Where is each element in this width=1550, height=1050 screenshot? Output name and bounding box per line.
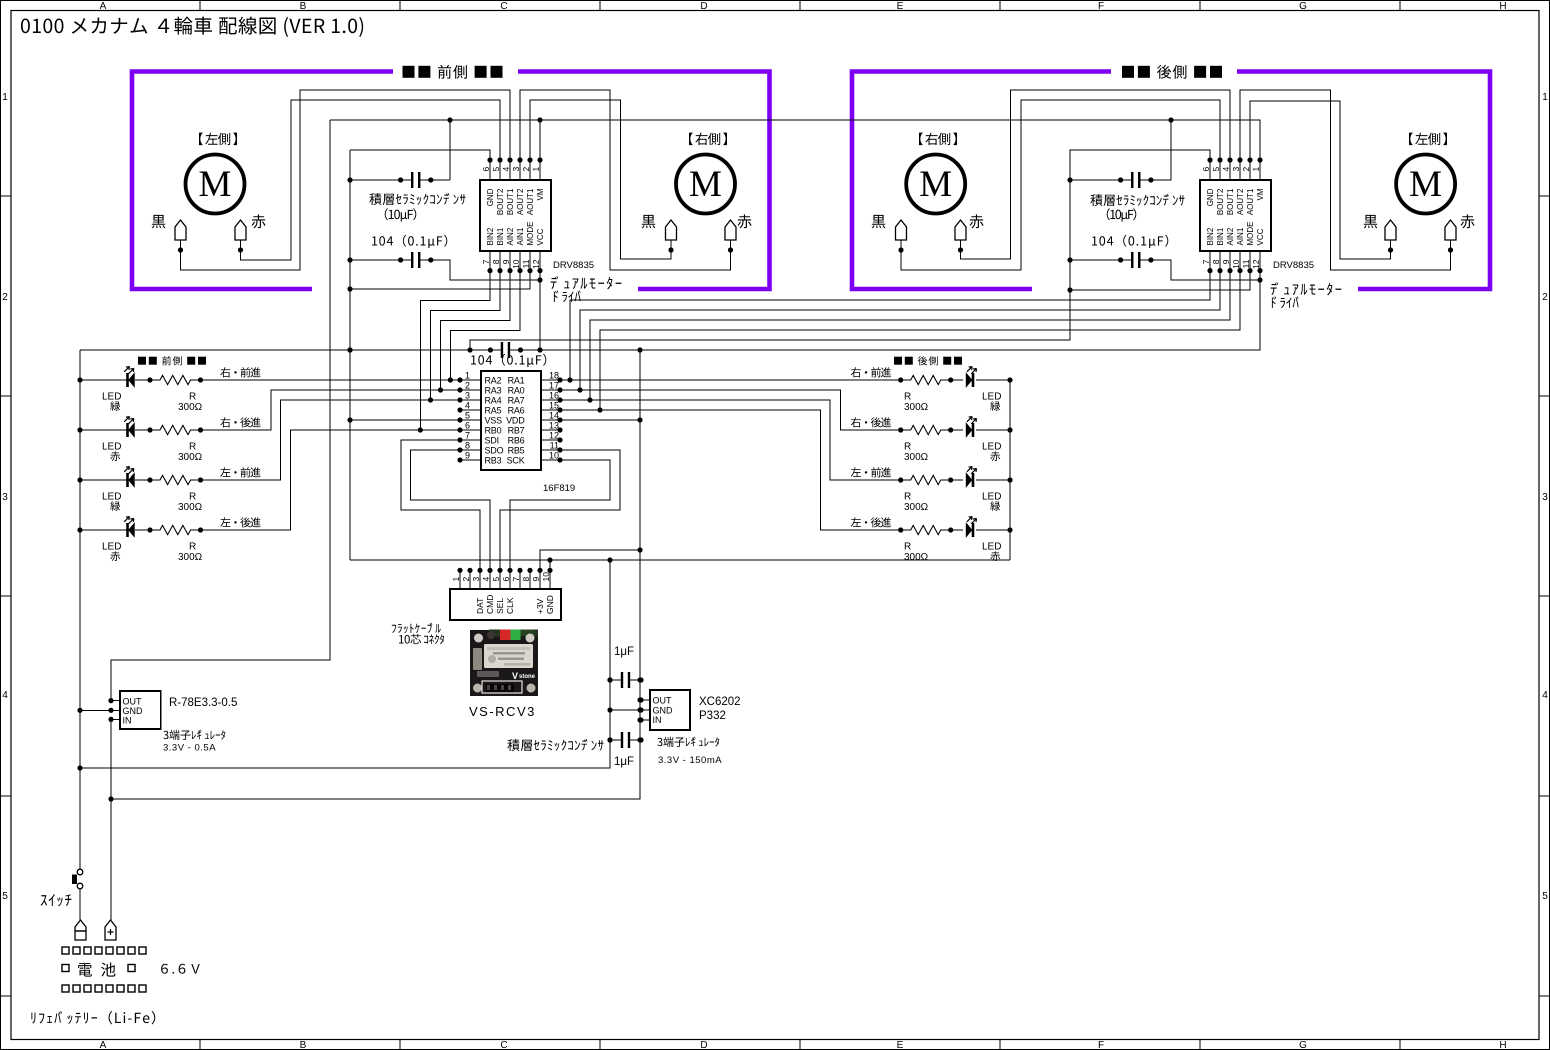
svg-text:RA7: RA7 [508, 396, 525, 406]
svg-text:R: R [189, 392, 196, 403]
svg-text:DAT: DAT [475, 598, 485, 614]
rear cap text1 [1090, 194, 1184, 206]
svg-text:M: M [1409, 164, 1442, 205]
svg-text:R: R [904, 442, 911, 453]
wire rear BIN2 to RA1 [570, 271, 1210, 380]
LED D5 rear 緑 [972, 373, 975, 387]
resistor R7 300ohm rear [901, 475, 951, 484]
junction rear-left red [1448, 247, 1453, 252]
svg-text:LED: LED [102, 392, 121, 403]
front-left motor label [199, 133, 237, 146]
svg-text:R: R [904, 392, 911, 403]
front-right red lead label [737, 214, 751, 228]
capacitor C2 0.1uF front [401, 259, 431, 261]
LED D2 front 赤 [126, 423, 129, 437]
D2 color label [110, 451, 120, 461]
svg-text:MODE: MODE [1246, 222, 1255, 246]
net label 左・前進 front [220, 467, 260, 477]
resistor R2 300ohm front [150, 425, 201, 434]
svg-text:3: 3 [1231, 167, 1241, 172]
junction 3.3V vertical [637, 347, 642, 352]
wire VDD to 3.3V [560, 419, 640, 421]
svg-text:BOUT2: BOUT2 [1216, 188, 1225, 215]
CN1 desc line1 [392, 623, 441, 633]
LED D7 rear 緑 [972, 473, 975, 487]
svg-text:LED: LED [982, 542, 1001, 553]
svg-text:R: R [189, 492, 196, 503]
svg-text:+3V: +3V [535, 598, 545, 614]
wire GND segment to C5 [80, 349, 490, 351]
LED D8 rear 赤 [972, 523, 975, 537]
wire SDO to CMD [411, 450, 490, 570]
rear cap text2 [1107, 208, 1137, 221]
svg-text:3.3V - 0.5A: 3.3V - 0.5A [163, 743, 216, 754]
U3 left pin stubs [460, 379, 481, 381]
wire RA1 to rear right-fwd [560, 379, 901, 381]
wire C3 to VM bus [1151, 120, 1171, 180]
svg-text:AOUT1: AOUT1 [1246, 188, 1255, 215]
svg-text:1μF: 1μF [614, 646, 634, 658]
rear cap text3 [1092, 235, 1168, 248]
junction BIN2-RB0 [418, 427, 423, 432]
connector CN1 flat cable [450, 589, 561, 620]
wire rear-right black to BOUT2 [901, 100, 1220, 270]
front cap text3 [372, 235, 447, 248]
CN1 desc line2 [399, 634, 444, 644]
LED D4 front 赤 [126, 523, 129, 537]
wire VM bus 6.6V [330, 120, 1260, 160]
junctions on left GND rail [77, 377, 82, 382]
svg-text:VDD: VDD [506, 416, 525, 426]
svg-text:F: F [1098, 1, 1104, 12]
resistor R3 300ohm front [150, 475, 201, 484]
svg-text:2: 2 [465, 381, 470, 391]
svg-text:SDI: SDI [485, 436, 499, 446]
capacitor C4 0.1uF rear [1121, 259, 1151, 261]
wire front-left red to BOUT2 [241, 100, 501, 260]
capacitor C3 10uF rear [1121, 179, 1151, 181]
svg-text:AIN1: AIN1 [1236, 227, 1245, 245]
rear-left black lead label [1364, 215, 1378, 228]
wire net left-rev to RB0 [201, 430, 461, 530]
rear block label [1122, 65, 1222, 79]
regulator U4 R-78E3.3-0.5 [120, 691, 161, 729]
junction rear AIN2-RA7 [587, 397, 592, 402]
svg-text:8: 8 [465, 441, 470, 451]
junctions on front GND bus [347, 177, 352, 182]
svg-text:VM: VM [1256, 188, 1265, 200]
wire battery- to switch [79, 768, 81, 869]
svg-text:V: V [512, 671, 518, 681]
D8 color label [990, 551, 1000, 561]
svg-text:VSS: VSS [485, 416, 503, 426]
wire BIN1 to RA4 [431, 271, 501, 400]
svg-text:LED: LED [982, 442, 1001, 453]
net label 左・前進 rear [851, 467, 891, 477]
svg-text:GND: GND [486, 188, 495, 206]
wire rear MODE to GND [1070, 271, 1250, 290]
motor M rear-left [1396, 155, 1455, 214]
svg-text:6: 6 [501, 577, 511, 582]
front cap text1 [369, 193, 465, 205]
rear-left red lead label [1460, 214, 1474, 228]
front-left red plug [235, 220, 246, 240]
U5 pin dots [638, 697, 643, 702]
svg-text:5: 5 [1542, 891, 1548, 902]
junctions on GND rail [547, 557, 552, 562]
svg-text:5: 5 [465, 411, 470, 421]
svg-text:R: R [904, 492, 911, 503]
svg-text:C: C [500, 1040, 507, 1050]
svg-text:5: 5 [491, 577, 501, 582]
svg-text:DRV8835: DRV8835 [1273, 260, 1314, 271]
svg-text:D: D [700, 1, 707, 12]
svg-text:D: D [700, 1040, 707, 1050]
svg-text:B: B [300, 1040, 307, 1050]
svg-text:RA5: RA5 [485, 406, 502, 416]
svg-text:5: 5 [491, 167, 501, 172]
wire RA0 to rear right-rev [560, 390, 901, 430]
svg-text:H: H [1499, 1, 1506, 12]
svg-text:8: 8 [491, 259, 501, 264]
svg-text:RB6: RB6 [508, 436, 525, 446]
wire SDI to DAT [401, 440, 480, 570]
svg-text:GND: GND [123, 706, 144, 716]
wire AIN2 to RA3 [441, 271, 511, 390]
battery minus plug [75, 920, 86, 931]
wire C2 to VCC [431, 260, 540, 280]
svg-text:1μF: 1μF [614, 756, 634, 768]
svg-text:1: 1 [1542, 92, 1548, 103]
svg-text:1: 1 [1251, 167, 1261, 172]
regulator U5 XC6202 [650, 690, 690, 730]
wire RA6 to rear left-rev [560, 410, 901, 530]
resistor R8 300ohm rear [901, 525, 951, 534]
junction C4-VCC rear [1257, 277, 1262, 282]
svg-text:R: R [904, 542, 911, 553]
junction rear BIN2-RA1 [567, 377, 572, 382]
CN1 pin stubs [459, 570, 461, 589]
svg-text:10: 10 [541, 572, 551, 582]
svg-text:BOUT1: BOUT1 [1226, 188, 1235, 215]
wire rear BIN1 to RA0 [580, 271, 1220, 390]
svg-text:6: 6 [465, 421, 470, 431]
svg-text:9: 9 [1221, 259, 1231, 264]
U5 pin stubs [641, 700, 650, 720]
net label 左・後進 front [220, 517, 260, 527]
D6 color label [990, 451, 1000, 461]
resistor R6 300ohm rear [901, 425, 951, 434]
svg-text:12: 12 [531, 259, 541, 269]
svg-text:1: 1 [2, 92, 8, 103]
junctions on rear GND bus [1067, 177, 1072, 182]
svg-text:17: 17 [549, 381, 559, 391]
junction AIN1-RA2 [448, 377, 453, 382]
battery cell squares row2 [62, 965, 69, 972]
LED D3 front 緑 [126, 473, 129, 487]
svg-text:RB7: RB7 [508, 426, 525, 436]
wire C4 left lead [1070, 259, 1121, 261]
U3 right pin dots [557, 377, 562, 382]
svg-text:12: 12 [549, 431, 559, 441]
svg-text:XC6202: XC6202 [699, 696, 741, 708]
U4 pin dots [108, 698, 113, 703]
capacitor C1 10uF front [401, 179, 431, 181]
wire front VCC down [539, 271, 541, 350]
svg-text:4: 4 [2, 690, 8, 701]
U2 desc line2 [1272, 296, 1299, 308]
svg-text:8: 8 [521, 577, 531, 582]
svg-text:RA0: RA0 [508, 386, 525, 396]
svg-text:3: 3 [465, 391, 470, 401]
svg-text:2: 2 [1241, 167, 1251, 172]
wire SCK to CLK [510, 460, 610, 570]
D7 color label [990, 501, 1000, 511]
svg-text:BIN2: BIN2 [1206, 227, 1215, 245]
svg-text:8: 8 [1211, 259, 1221, 264]
resistor R5 300ohm rear [901, 375, 951, 384]
rear-left motor label [1409, 133, 1447, 146]
junction front-right red [728, 247, 733, 252]
junction rear-left black [1388, 247, 1393, 252]
svg-text:AOUT2: AOUT2 [1236, 188, 1245, 215]
front block label [403, 65, 503, 79]
svg-text:M: M [689, 164, 722, 205]
capacitor C6 1uF [610, 679, 641, 681]
D1 color label [110, 401, 120, 411]
wire regulator OUT to VM bus [111, 120, 330, 701]
microcontroller U3 PIC16F819 [481, 371, 541, 470]
motor M front-left [186, 155, 245, 214]
junction battery+ rail [108, 796, 113, 801]
svg-text:1: 1 [531, 167, 541, 172]
svg-text:LED: LED [102, 542, 121, 553]
wire front-left black to BOUT1 [181, 90, 511, 270]
wire net right-fwd to RA2 [201, 379, 461, 381]
svg-text:RA3: RA3 [485, 386, 502, 396]
svg-text:300Ω: 300Ω [904, 452, 929, 463]
front-right black plug [666, 220, 677, 240]
svg-text:12: 12 [1251, 259, 1261, 269]
wire front GND bus vertical [349, 150, 351, 560]
motor driver U1 DRV8835 front [480, 180, 551, 251]
svg-text:10: 10 [1231, 259, 1241, 269]
U2 bottom pin dots [1207, 268, 1212, 273]
junction VDD [637, 417, 642, 422]
front-left black lead label [152, 215, 166, 228]
D3 color label [110, 501, 120, 511]
front-left red lead label [251, 214, 265, 228]
svg-text:7: 7 [481, 259, 491, 264]
switch label [41, 894, 72, 906]
wire 3.3V vertical and battery+ rail [111, 350, 640, 799]
wire connector GND [549, 560, 551, 570]
capacitor C7 1uF [610, 739, 641, 741]
wire front GND to pin6 [350, 150, 490, 160]
battery type label [31, 1011, 155, 1024]
svg-text:14: 14 [549, 411, 559, 421]
LED D6 rear 赤 [972, 423, 975, 437]
svg-text:9: 9 [501, 259, 511, 264]
U4 desc line1 [163, 730, 225, 740]
svg-text:2: 2 [521, 167, 531, 172]
rear block purple border [852, 72, 1490, 290]
junctions on GND segment [347, 347, 352, 352]
svg-text:BIN1: BIN1 [1216, 227, 1225, 245]
svg-text:BIN2: BIN2 [486, 227, 495, 245]
LED D1 front 緑 [126, 373, 129, 387]
wire AIN1 to RA2 [450, 271, 520, 380]
svg-text:300Ω: 300Ω [904, 502, 929, 513]
svg-text:18: 18 [549, 371, 559, 381]
svg-text:OUT: OUT [123, 697, 143, 707]
svg-text:GND: GND [1206, 188, 1215, 206]
wire GND rail [350, 559, 1010, 561]
svg-text:1: 1 [465, 371, 470, 381]
svg-text:VS-RCV3: VS-RCV3 [469, 704, 536, 719]
wire front LED row leads [80, 379, 150, 381]
junctions on x610 vertical [607, 677, 612, 682]
rear-right motor label [919, 133, 957, 146]
svg-text:M: M [199, 164, 232, 205]
front-right motor label [689, 133, 727, 146]
motor driver U2 DRV8835 rear [1200, 180, 1271, 251]
svg-text:VCC: VCC [536, 228, 545, 245]
svg-text:9: 9 [465, 451, 470, 461]
rear-right red plug [955, 220, 966, 240]
svg-text:BIN1: BIN1 [496, 227, 505, 245]
svg-text:A: A [100, 1, 107, 12]
wire C1 right lead [431, 179, 450, 181]
wire rear AIN1 to RA6 [600, 271, 1240, 410]
front-left black plug [175, 220, 186, 240]
D5 color label [990, 401, 1000, 411]
junction rear BIN1-RA0 [577, 387, 582, 392]
svg-text:6: 6 [1201, 167, 1211, 172]
svg-text:3.3V - 150mA: 3.3V - 150mA [658, 755, 722, 766]
svg-text:VCC: VCC [1256, 228, 1265, 245]
svg-text:3: 3 [2, 492, 8, 503]
svg-text:13: 13 [549, 421, 559, 431]
svg-text:2: 2 [461, 577, 471, 582]
front cap text2 [385, 208, 417, 221]
net label 右・後進 front [220, 417, 260, 427]
svg-text:RA6: RA6 [508, 406, 525, 416]
svg-text:11: 11 [550, 441, 559, 451]
front block purple border [132, 72, 770, 290]
junctions rear LED bus [1007, 377, 1012, 382]
svg-text:4: 4 [1542, 690, 1548, 701]
svg-text:SCK: SCK [507, 456, 525, 466]
svg-text:300Ω: 300Ω [178, 452, 203, 463]
junction VCC on 3.3V bus [537, 347, 542, 352]
svg-text:CLK: CLK [505, 597, 515, 614]
battery voltage label [161, 964, 200, 974]
svg-text:LED: LED [102, 492, 121, 503]
svg-text:300Ω: 300Ω [904, 402, 929, 413]
wire front MODE to GND [350, 271, 530, 289]
svg-text:5: 5 [1211, 167, 1221, 172]
battery plus plug [105, 920, 116, 940]
junction front-right black [668, 247, 673, 252]
net label 右・後進 rear [851, 417, 891, 427]
svg-text:R-78E3.3-0.5: R-78E3.3-0.5 [169, 697, 237, 709]
switch SW1 [77, 869, 83, 875]
svg-text:AIN1: AIN1 [516, 227, 525, 245]
U1 bottom pin dots [487, 268, 492, 273]
motor M rear-right [906, 155, 965, 214]
wire C3 left lead [1070, 179, 1121, 181]
junction AIN2-RA3 [438, 387, 443, 392]
svg-text:SEL: SEL [495, 598, 505, 614]
resistor R1 300ohm front [150, 375, 201, 384]
wire front-right red to AOUT2 [520, 90, 731, 270]
U1 top pin dots [487, 157, 492, 162]
svg-text:RA2: RA2 [485, 376, 502, 386]
U2 desc line1 [1271, 282, 1342, 295]
wire net left-fwd to RA4 [201, 400, 461, 480]
junction BIN1-RA4 [428, 397, 433, 402]
wire rear-left black to AOUT1 [1250, 101, 1391, 259]
svg-text:R: R [189, 542, 196, 553]
svg-text:4: 4 [1221, 167, 1231, 172]
rear-right red lead label [969, 214, 983, 228]
net label 左・後進 rear [851, 517, 891, 527]
svg-text:VM: VM [536, 188, 545, 200]
wire C2 left lead [350, 259, 401, 261]
U5 desc line1 [657, 737, 719, 747]
U2 top pin dots [1207, 157, 1212, 162]
svg-text:E: E [897, 1040, 904, 1050]
svg-text:16F819: 16F819 [543, 483, 575, 494]
U1 top pin stubs [489, 160, 491, 180]
wire rear AIN2 to RA7 [590, 271, 1230, 400]
svg-text:BOUT1: BOUT1 [506, 188, 515, 215]
svg-text:11: 11 [1241, 259, 1251, 268]
grid ticks [199, 0, 201, 11]
svg-text:3: 3 [471, 577, 481, 582]
svg-text:BOUT2: BOUT2 [496, 188, 505, 215]
svg-text:DRV8835: DRV8835 [553, 260, 594, 271]
svg-text:E: E [897, 1, 904, 12]
svg-text:7: 7 [511, 577, 521, 582]
wire VM pin drop front [539, 120, 541, 160]
svg-text:3: 3 [1542, 492, 1548, 503]
wire BIN2 to RB0 [420, 271, 490, 430]
wire rear-left red to AOUT2 [1240, 90, 1451, 270]
battery label [78, 963, 115, 977]
svg-text:G: G [1299, 1040, 1307, 1050]
svg-text:RB3: RB3 [485, 456, 502, 466]
svg-text:GND: GND [653, 706, 674, 716]
svg-text:6: 6 [481, 167, 491, 172]
junction front-left black [178, 247, 183, 252]
svg-text:7: 7 [1201, 259, 1211, 264]
junction rear-right red [958, 247, 963, 252]
rear-left black plug [1385, 220, 1396, 240]
D4 color label [110, 551, 120, 561]
wire GND vertical to battery- [80, 560, 610, 768]
svg-text:10: 10 [511, 259, 521, 269]
wire cap C1 to VM bus [449, 120, 451, 180]
svg-text:4: 4 [465, 401, 470, 411]
U3 left pin dots [457, 377, 462, 382]
svg-text:4: 4 [481, 577, 491, 582]
svg-text:LED: LED [982, 492, 1001, 503]
wire VSS to GND [350, 419, 460, 421]
svg-text:16: 16 [549, 391, 559, 401]
CN1 pin dots [457, 568, 462, 573]
